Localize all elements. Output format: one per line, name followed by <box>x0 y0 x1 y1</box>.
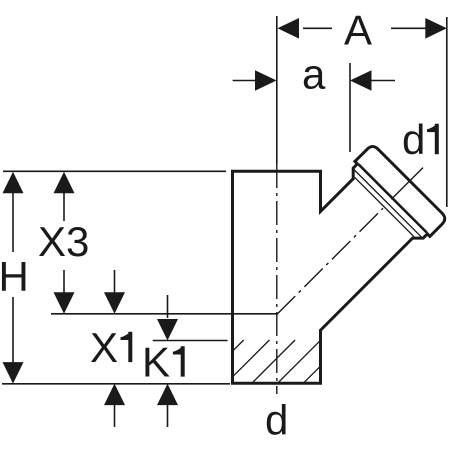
extension line vertical at branch socket <box>349 63 351 152</box>
hatch <box>233 340 319 383</box>
centerline branch axis <box>277 208 383 314</box>
fitting body outline <box>233 147 445 384</box>
extension line top (H/X3 datum at pipe top) <box>3 170 226 172</box>
dimension K1 <box>167 295 169 427</box>
dimension A <box>303 27 426 29</box>
svg-text:d: d <box>265 396 288 443</box>
dimension a <box>233 80 395 82</box>
svg-text:X3: X3 <box>38 218 89 265</box>
dimension H <box>12 192 14 363</box>
extension line vertical right <box>446 17 448 207</box>
centerline main vertical <box>276 164 278 394</box>
svg-text:K: K <box>142 339 170 386</box>
extension line K1 level <box>153 340 228 342</box>
dimension X3 <box>63 192 65 293</box>
svg-text:d: d <box>402 116 425 163</box>
extension line bottom datum <box>2 383 230 385</box>
socket ring lines (thin) <box>355 177 414 236</box>
svg-text:A: A <box>344 6 372 53</box>
svg-text:a: a <box>302 51 326 98</box>
dimension X1 <box>114 270 116 427</box>
extension line vertical at main axis <box>276 16 278 164</box>
svg-text:X: X <box>90 324 118 371</box>
svg-text:H: H <box>0 253 29 300</box>
extension line X1 level <box>51 313 277 315</box>
socket step edge (thick) <box>359 165 427 233</box>
